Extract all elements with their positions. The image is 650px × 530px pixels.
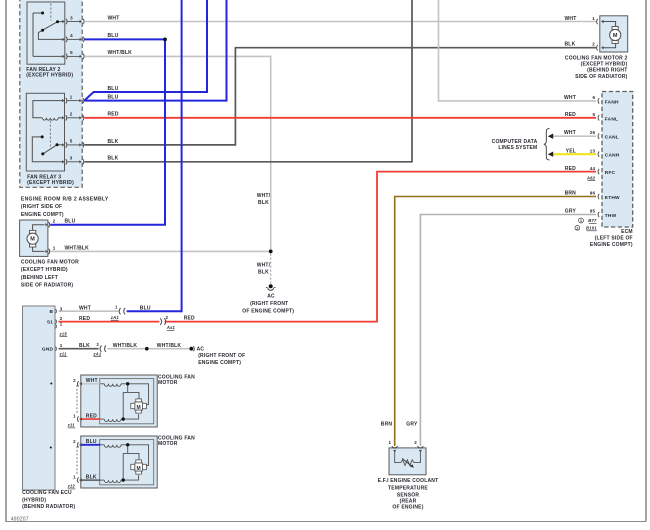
svg-text:BRN: BRN: [381, 421, 393, 427]
svg-text:z15: z15: [59, 332, 68, 337]
svg-text:WHT: WHT: [86, 378, 98, 384]
svg-text:YEL: YEL: [566, 148, 576, 154]
svg-text:3: 3: [70, 15, 73, 20]
svg-text:ENGINE COMPT): ENGINE COMPT): [21, 212, 64, 218]
svg-text:WHT/BLK: WHT/BLK: [113, 343, 138, 349]
svg-text:GND: GND: [42, 347, 54, 353]
svg-text:BLK: BLK: [258, 200, 269, 206]
svg-text:1: 1: [592, 16, 595, 21]
svg-text:WHT: WHT: [564, 130, 576, 136]
svg-text:CANH: CANH: [605, 153, 620, 159]
svg-text:M: M: [137, 466, 141, 472]
svg-text:BLU: BLU: [140, 306, 151, 312]
svg-text:44: 44: [590, 166, 596, 171]
svg-text:1: 1: [580, 219, 582, 223]
svg-text:RED: RED: [184, 316, 195, 322]
svg-text:(BEHIND LEFT: (BEHIND LEFT: [21, 275, 58, 281]
svg-text:1: 1: [70, 94, 73, 99]
svg-text:490207: 490207: [11, 516, 29, 522]
svg-text:OF ENGINE COMPT): OF ENGINE COMPT): [242, 308, 294, 314]
svg-text:ENGINE COMPT): ENGINE COMPT): [198, 360, 241, 366]
svg-text:RED: RED: [565, 166, 576, 172]
svg-text:WHT/: WHT/: [257, 263, 271, 269]
svg-text:RED: RED: [108, 112, 119, 118]
svg-text:BLK: BLK: [108, 139, 119, 145]
svg-text:zA1: zA1: [110, 315, 120, 320]
svg-text:AC: AC: [267, 293, 275, 299]
svg-text:(EXCEPT HYBRID): (EXCEPT HYBRID): [21, 267, 68, 273]
svg-text:(RIGHT SIDE OF: (RIGHT SIDE OF: [21, 204, 62, 210]
svg-text:z11: z11: [59, 351, 68, 356]
svg-text:z11: z11: [67, 423, 76, 428]
svg-text:WHT: WHT: [565, 16, 577, 22]
svg-text:1: 1: [73, 413, 76, 418]
svg-text:B101: B101: [586, 226, 597, 231]
svg-text:2: 2: [73, 439, 76, 444]
svg-text:AC: AC: [197, 347, 205, 353]
svg-text:(BEHIND RADIATOR): (BEHIND RADIATOR): [22, 504, 75, 510]
svg-text:BLU: BLU: [65, 219, 76, 225]
svg-text:BLK: BLK: [258, 270, 269, 276]
svg-text:1: 1: [73, 474, 76, 479]
svg-text:LINES SYSTEM: LINES SYSTEM: [498, 145, 537, 151]
svg-text:13: 13: [590, 148, 596, 153]
svg-text:(EXCEPT HYBRID): (EXCEPT HYBRID): [26, 72, 73, 78]
svg-text:BLU: BLU: [86, 439, 97, 445]
svg-text:FANL: FANL: [605, 116, 618, 122]
svg-text:z12: z12: [67, 484, 76, 489]
svg-text:26: 26: [590, 130, 596, 135]
svg-text:RFC: RFC: [605, 170, 616, 176]
svg-text:95: 95: [590, 209, 596, 214]
svg-text:5: 5: [70, 50, 73, 55]
svg-text:GRY: GRY: [565, 209, 577, 215]
svg-text:COOLING FAN MOTOR: COOLING FAN MOTOR: [21, 259, 79, 265]
svg-text:WHT: WHT: [564, 95, 576, 101]
svg-text:BLU: BLU: [108, 33, 119, 39]
svg-text:2: 2: [70, 112, 73, 117]
svg-text:B: B: [50, 309, 54, 315]
svg-text:BLU: BLU: [108, 95, 119, 101]
svg-text:5: 5: [592, 112, 595, 117]
svg-text:MOTOR: MOTOR: [158, 441, 178, 447]
svg-text:BLK: BLK: [108, 156, 119, 162]
svg-text:A62: A62: [586, 175, 596, 180]
svg-text:(BEHIND RIGHT: (BEHIND RIGHT: [587, 68, 627, 74]
svg-text:WHT: WHT: [79, 305, 91, 311]
svg-text:WHT/BLK: WHT/BLK: [108, 50, 133, 56]
svg-text:FANH: FANH: [605, 99, 619, 105]
svg-text:WHT: WHT: [108, 15, 120, 21]
svg-text:(LEFT SIDE OF: (LEFT SIDE OF: [595, 236, 633, 242]
svg-text:SIDE OF RADIATOR): SIDE OF RADIATOR): [575, 74, 628, 80]
svg-text:ENGINE COMPT): ENGINE COMPT): [590, 242, 633, 248]
svg-text:WHT/: WHT/: [257, 193, 271, 199]
svg-text:(EXCEPT HYBRID): (EXCEPT HYBRID): [27, 180, 74, 186]
svg-text:RED: RED: [565, 112, 576, 118]
svg-text:5: 5: [70, 139, 73, 144]
svg-text:1: 1: [60, 343, 63, 348]
svg-text:BLK: BLK: [565, 42, 576, 48]
svg-text:M: M: [30, 237, 35, 243]
svg-text:WHT/BLK: WHT/BLK: [65, 245, 90, 251]
svg-text:TEMPERATURE: TEMPERATURE: [388, 486, 428, 492]
svg-text:2: 2: [592, 42, 595, 47]
svg-text:1: 1: [60, 321, 63, 326]
svg-text:BLU: BLU: [108, 86, 119, 92]
svg-text:MOTOR: MOTOR: [158, 380, 178, 386]
svg-text:3: 3: [60, 306, 63, 311]
svg-text:ETHW: ETHW: [605, 195, 620, 201]
svg-text:2: 2: [60, 316, 63, 321]
svg-text:3: 3: [70, 156, 73, 161]
svg-text:B77: B77: [588, 218, 597, 223]
svg-text:COOLING FAN ECU: COOLING FAN ECU: [22, 490, 72, 496]
svg-text:BRN: BRN: [565, 191, 577, 197]
svg-text:BLK: BLK: [86, 474, 97, 480]
svg-text:RED: RED: [79, 316, 90, 322]
svg-text:SIDE OF RADIATOR): SIDE OF RADIATOR): [21, 283, 74, 289]
svg-text:M: M: [613, 33, 618, 39]
svg-text:ECM: ECM: [621, 229, 633, 235]
svg-text:OF ENGINE): OF ENGINE): [392, 504, 423, 510]
svg-text:zA1: zA1: [92, 351, 102, 356]
svg-text:1: 1: [388, 440, 391, 445]
svg-text:6: 6: [592, 95, 595, 100]
svg-text:4: 4: [70, 33, 73, 38]
svg-text:M: M: [137, 405, 141, 411]
svg-text:96: 96: [590, 191, 596, 196]
svg-text:SENSOR: SENSOR: [397, 492, 420, 498]
svg-text:RED: RED: [86, 413, 97, 419]
svg-text:(RIGHT FRONT OF: (RIGHT FRONT OF: [198, 353, 245, 359]
svg-text:S1: S1: [47, 319, 53, 325]
svg-text:2: 2: [576, 226, 578, 230]
svg-text:2: 2: [73, 378, 76, 383]
svg-text:Ax1: Ax1: [166, 325, 176, 330]
svg-text:1: 1: [53, 245, 56, 250]
svg-text:2: 2: [414, 440, 417, 445]
svg-text:WHT/BLK: WHT/BLK: [157, 343, 182, 349]
svg-text:(RIGHT FRONT: (RIGHT FRONT: [250, 301, 288, 307]
svg-text:(HYBRID): (HYBRID): [22, 497, 46, 503]
svg-text:(EXCEPT HYBRID): (EXCEPT HYBRID): [581, 61, 628, 67]
svg-text:THW: THW: [605, 213, 617, 219]
svg-text:BLK: BLK: [79, 343, 90, 349]
svg-text:ENGINE ROOM R/B 2 ASSEMBLY: ENGINE ROOM R/B 2 ASSEMBLY: [21, 196, 109, 202]
svg-text:CANL: CANL: [605, 135, 619, 141]
svg-text:2: 2: [53, 219, 56, 224]
svg-text:E.F.I ENGINE COOLANT: E.F.I ENGINE COOLANT: [378, 478, 439, 484]
svg-text:GRY: GRY: [406, 421, 418, 427]
